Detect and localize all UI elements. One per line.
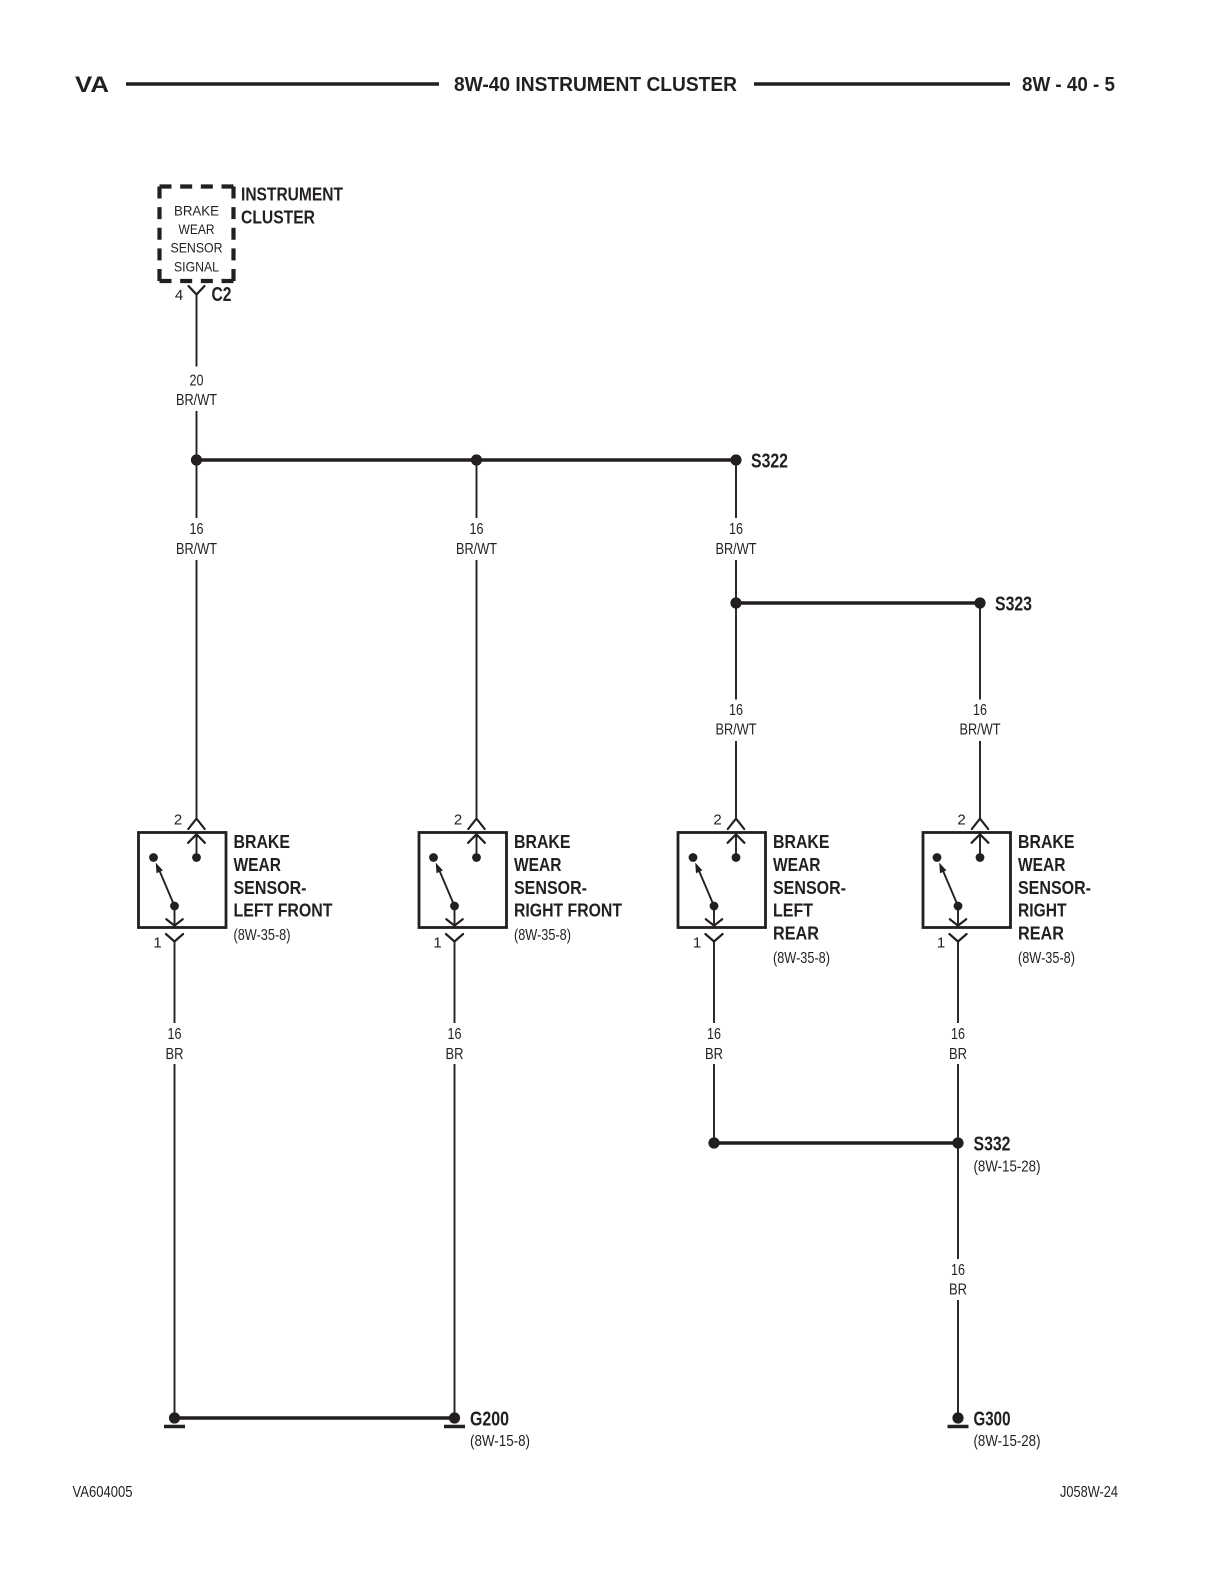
svg-text:RIGHT: RIGHT xyxy=(1018,900,1067,921)
switch wiper arm with arrowhead of left rear xyxy=(695,863,714,906)
wire 20 BR/WT from C2 pin 4 to splice S322 xyxy=(196,295,198,461)
switch wiper arm with arrowhead of left front xyxy=(156,863,175,906)
pin 1 internal lead with arrow of left rear xyxy=(706,906,722,926)
net label BRAKE WEAR SENSOR SIGNAL xyxy=(171,203,223,275)
splice S323 bus xyxy=(736,601,980,604)
svg-text:BR/WT: BR/WT xyxy=(960,722,1001,739)
ground designator G200 xyxy=(470,1409,530,1451)
connector half (female) at pin 2 of right front xyxy=(468,819,484,829)
splice S332 bus xyxy=(714,1141,958,1144)
svg-text:G200: G200 xyxy=(470,1409,509,1431)
svg-text:WEAR: WEAR xyxy=(1018,854,1066,875)
component label right front xyxy=(514,831,623,944)
svg-text:REAR: REAR xyxy=(1018,923,1064,944)
svg-text:VA604005: VA604005 xyxy=(73,1484,133,1501)
svg-text:CLUSTER: CLUSTER xyxy=(241,207,315,228)
svg-text:16: 16 xyxy=(729,521,743,538)
svg-text:SIGNAL: SIGNAL xyxy=(174,259,219,275)
svg-text:1: 1 xyxy=(693,935,701,952)
wire label 16 BR/WT (left rear) xyxy=(716,702,757,739)
header rule right xyxy=(754,82,1010,85)
junction dot S322-c xyxy=(730,454,741,465)
connector half (female) at pin 1 of left rear xyxy=(705,934,722,942)
svg-text:16: 16 xyxy=(168,1026,182,1043)
wire 16 BR/WT S323 to right rear sensor xyxy=(979,603,981,819)
svg-text:S323: S323 xyxy=(995,594,1032,616)
brake wear sensor box right rear xyxy=(923,833,1011,928)
switch wiper arm with arrowhead of right rear xyxy=(939,863,958,906)
junction dot S322-a xyxy=(191,454,202,465)
svg-text:SENSOR-: SENSOR- xyxy=(1018,877,1091,898)
svg-text:16: 16 xyxy=(470,521,484,538)
pin 1 internal lead with arrow of right front xyxy=(446,906,462,926)
svg-text:S322: S322 xyxy=(751,451,788,473)
component label left front xyxy=(234,831,334,944)
svg-text:1: 1 xyxy=(153,935,161,952)
switch fixed contact (left) of left front xyxy=(149,853,158,862)
instrument cluster connector box (dashed) xyxy=(160,187,234,282)
wire label 16 BR/WT (left front) xyxy=(176,521,217,558)
svg-text:BR: BR xyxy=(949,1282,967,1299)
connector half (male arrow) at pin 2 of right front xyxy=(468,834,485,857)
svg-text:16: 16 xyxy=(190,521,204,538)
svg-text:(8W-15-28): (8W-15-28) xyxy=(974,1433,1041,1450)
wire label 16 BR (left rear) xyxy=(705,1026,723,1063)
switch fixed contact (right, pin 2) of left front xyxy=(192,853,201,862)
switch fixed contact (right, pin 2) of right rear xyxy=(976,853,985,862)
svg-text:SENSOR: SENSOR xyxy=(171,240,223,256)
svg-text:(8W-15-28): (8W-15-28) xyxy=(974,1159,1041,1176)
switch fixed contact (right, pin 2) of right front xyxy=(472,853,481,862)
switch fixed contact (right, pin 2) of left rear xyxy=(732,853,741,862)
svg-text:WEAR: WEAR xyxy=(773,854,821,875)
connector C2 symbol xyxy=(189,286,205,295)
wire 16 BR right front sensor to G200 xyxy=(454,942,456,1419)
switch common contact (pin 1) of left rear xyxy=(710,902,719,911)
junction dot S323-a xyxy=(730,597,741,608)
svg-text:2: 2 xyxy=(454,812,462,829)
ground terminal dot G200-b xyxy=(444,1412,465,1426)
svg-text:S332: S332 xyxy=(974,1134,1011,1156)
junction dot S332-b xyxy=(952,1137,963,1148)
wire 16 BR/WT S322 to right front sensor xyxy=(476,460,478,819)
wire label 20 BR/WT xyxy=(176,373,217,410)
svg-text:16: 16 xyxy=(973,702,987,719)
svg-text:1: 1 xyxy=(937,935,945,952)
svg-text:2: 2 xyxy=(957,812,965,829)
switch common contact (pin 1) of right rear xyxy=(954,902,963,911)
connector half (female) at pin 2 of left rear xyxy=(728,819,744,829)
wire label 16 BR (right rear) xyxy=(949,1026,967,1063)
component label INSTRUMENT CLUSTER xyxy=(241,184,344,228)
svg-text:(8W-35-8): (8W-35-8) xyxy=(514,927,571,944)
svg-text:BRAKE: BRAKE xyxy=(1018,831,1075,852)
svg-text:BR/WT: BR/WT xyxy=(716,722,757,739)
wire 16 BR left front sensor to G200 xyxy=(174,942,176,1419)
pin 1 internal lead with arrow of right rear xyxy=(950,906,966,926)
wire label 16 BR/WT (to S323) xyxy=(716,521,757,558)
ground terminal dot G200-a xyxy=(164,1412,185,1426)
svg-text:2: 2 xyxy=(174,812,182,829)
brake wear sensor box left rear xyxy=(678,833,766,928)
connector half (female) at pin 2 of right rear xyxy=(972,819,988,829)
svg-text:BR/WT: BR/WT xyxy=(176,392,217,409)
svg-text:BRAKE: BRAKE xyxy=(514,831,571,852)
svg-text:BR/WT: BR/WT xyxy=(456,541,497,558)
wire label 16 BR (right front) xyxy=(446,1026,464,1063)
svg-text:REAR: REAR xyxy=(773,923,819,944)
wire label 16 BR/WT (right front) xyxy=(456,521,497,558)
svg-text:20: 20 xyxy=(190,373,204,390)
switch common contact (pin 1) of left front xyxy=(170,902,179,911)
wire 16 BR/WT S322 to S323 xyxy=(735,460,737,603)
svg-text:16: 16 xyxy=(951,1026,965,1043)
splice S322 bus xyxy=(197,458,737,461)
brake wear sensor box right front xyxy=(419,833,507,928)
splice designator S332 xyxy=(974,1134,1041,1176)
connector half (male arrow) at pin 2 of left rear xyxy=(728,834,745,857)
svg-text:BR: BR xyxy=(705,1046,723,1063)
wire 16 BR right rear sensor to S332 xyxy=(957,942,959,1144)
junction dot S322-b xyxy=(471,454,482,465)
switch fixed contact (left) of right front xyxy=(429,853,438,862)
svg-text:BRAKE: BRAKE xyxy=(234,831,291,852)
svg-text:8W - 40 - 5: 8W - 40 - 5 xyxy=(1022,74,1115,96)
connector half (female) at pin 1 of right front xyxy=(446,934,463,942)
svg-text:16: 16 xyxy=(448,1026,462,1043)
svg-text:RIGHT FRONT: RIGHT FRONT xyxy=(514,900,623,921)
svg-text:BR/WT: BR/WT xyxy=(716,541,757,558)
svg-text:SENSOR-: SENSOR- xyxy=(514,877,587,898)
svg-text:BRAKE: BRAKE xyxy=(773,831,830,852)
svg-text:1: 1 xyxy=(433,935,441,952)
component label left rear xyxy=(773,831,846,967)
connector half (female) at pin 2 of left front xyxy=(188,819,204,829)
connector half (male arrow) at pin 2 of left front xyxy=(188,834,205,857)
wire 16 BR/WT S323 to left rear sensor xyxy=(735,603,737,819)
svg-text:VA: VA xyxy=(75,72,109,97)
switch fixed contact (left) of left rear xyxy=(689,853,698,862)
connector half (male arrow) at pin 2 of right rear xyxy=(972,834,989,857)
svg-text:(8W-35-8): (8W-35-8) xyxy=(1018,950,1075,967)
svg-text:J058W-24: J058W-24 xyxy=(1060,1484,1118,1501)
connector half (female) at pin 1 of right rear xyxy=(949,934,966,942)
brake wear sensor box left front xyxy=(139,833,227,928)
header rule left xyxy=(126,82,439,85)
ground designator G300 xyxy=(974,1409,1041,1451)
junction dot S332-a xyxy=(708,1137,719,1148)
svg-text:LEFT: LEFT xyxy=(773,900,814,921)
svg-text:4: 4 xyxy=(175,287,183,304)
wire 16 BR left rear sensor to S332 xyxy=(713,942,715,1144)
wire label 16 BR/WT (right rear) xyxy=(960,702,1001,739)
svg-text:2: 2 xyxy=(713,812,721,829)
svg-text:WEAR: WEAR xyxy=(179,221,215,237)
ground G200 bus xyxy=(175,1416,455,1419)
switch common contact (pin 1) of right front xyxy=(450,902,459,911)
pin 1 internal lead with arrow of left front xyxy=(166,906,182,926)
svg-text:16: 16 xyxy=(707,1026,721,1043)
switch fixed contact (left) of right rear xyxy=(933,853,942,862)
wire label 16 BR (left front) xyxy=(166,1026,184,1063)
wire label 16 BR (S332 to G300) xyxy=(949,1262,967,1299)
ground G300 xyxy=(948,1412,969,1426)
svg-text:(8W-35-8): (8W-35-8) xyxy=(234,927,291,944)
svg-text:BR: BR xyxy=(446,1046,464,1063)
svg-text:G300: G300 xyxy=(974,1409,1011,1431)
svg-text:WEAR: WEAR xyxy=(514,854,562,875)
svg-text:(8W-35-8): (8W-35-8) xyxy=(773,950,830,967)
svg-text:16: 16 xyxy=(729,702,743,719)
svg-text:BR: BR xyxy=(949,1046,967,1063)
svg-text:BRAKE: BRAKE xyxy=(174,203,219,219)
component label right rear xyxy=(1018,831,1091,967)
switch wiper arm with arrowhead of right front xyxy=(436,863,455,906)
svg-text:INSTRUMENT: INSTRUMENT xyxy=(241,184,344,205)
svg-text:SENSOR-: SENSOR- xyxy=(773,877,846,898)
svg-text:SENSOR-: SENSOR- xyxy=(234,877,307,898)
wire 16 BR S332 to G300 xyxy=(957,1143,959,1418)
wire 16 BR/WT S322 to left front sensor xyxy=(196,460,198,819)
svg-text:WEAR: WEAR xyxy=(234,854,282,875)
connector half (female) at pin 1 of left front xyxy=(166,934,183,942)
svg-text:BR: BR xyxy=(166,1046,184,1063)
svg-text:C2: C2 xyxy=(212,284,232,306)
junction dot S323-b xyxy=(974,597,985,608)
svg-text:BR/WT: BR/WT xyxy=(176,541,217,558)
svg-text:(8W-15-8): (8W-15-8) xyxy=(470,1433,530,1450)
svg-text:8W-40 INSTRUMENT CLUSTER: 8W-40 INSTRUMENT CLUSTER xyxy=(454,74,738,96)
svg-text:LEFT FRONT: LEFT FRONT xyxy=(234,900,334,921)
svg-text:16: 16 xyxy=(951,1262,965,1279)
